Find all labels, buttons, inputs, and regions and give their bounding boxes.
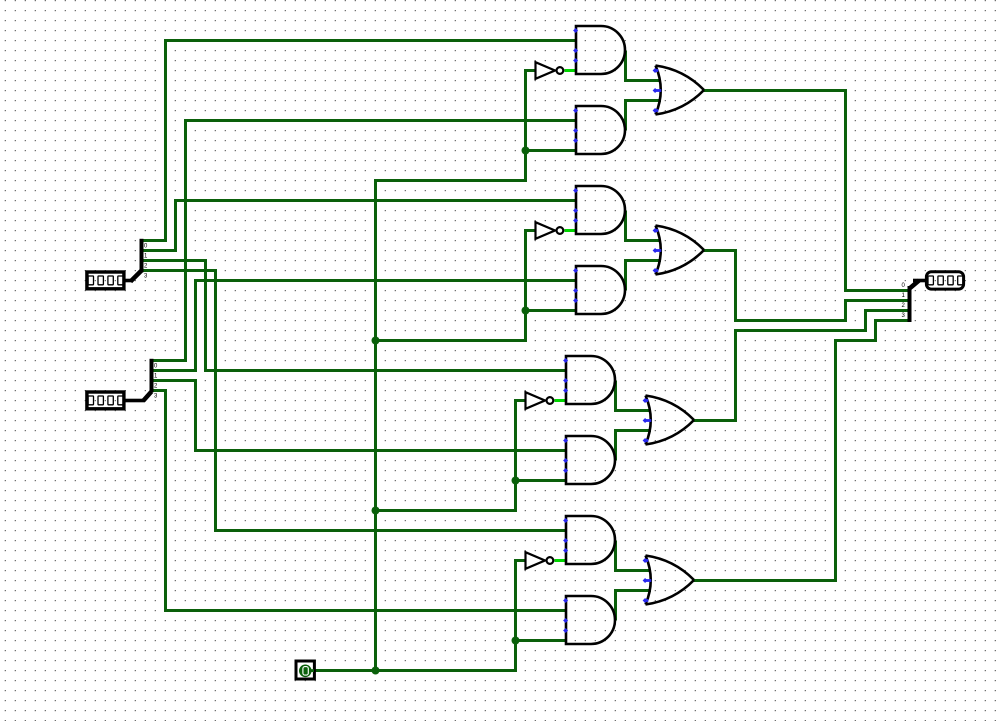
wire B1 (input B bit1 to AND U4 input) <box>151 281 577 371</box>
wire OUT0 from OR U9 <box>704 91 908 291</box>
wire SEL riser <box>376 181 528 673</box>
AND gate U4 <box>573 266 625 314</box>
wire N4 output (logic 1) <box>555 559 567 562</box>
wire U8 out to OR U12 <box>616 591 652 621</box>
wire N1 output (logic 1) <box>565 69 577 72</box>
wire SEL group2 vertical to NOT N2 <box>375 231 536 341</box>
OR gate U10 <box>653 226 704 275</box>
wire A1 (input A bit1 to AND U3 input) <box>141 201 577 251</box>
splitter S1 pin labels 0-3 <box>144 244 148 280</box>
wire U1 out to OR U9 <box>626 51 662 81</box>
splitter S3 (output) spine <box>908 279 927 322</box>
AND gate U7 <box>563 516 615 564</box>
wire OUT2 from OR U11 <box>694 311 908 421</box>
wire N3 output (logic 1) <box>555 399 567 402</box>
wire N2 output (logic 1) <box>565 229 577 232</box>
splitter S1 (input A) spine <box>125 239 144 283</box>
output pin (4-bit, value 0000) <box>926 272 963 289</box>
wire U3 out to OR U10 <box>626 211 662 241</box>
wire SEL horizontal from constant <box>313 669 517 672</box>
NOT gate N2 <box>536 222 564 239</box>
wire SEL to AND U8 <box>516 639 568 642</box>
constant 0 (select source) <box>296 661 314 679</box>
wire B0 (input B bit0 to AND U2 input) <box>151 121 577 361</box>
input pin B (4-bit, value 0000) <box>87 392 124 409</box>
NOT gate N4 <box>526 552 554 569</box>
junction SEL riser y510 <box>372 507 380 515</box>
wire B2 (input B bit2 to AND U6 input) <box>151 381 567 451</box>
wire SEL to AND U2 <box>526 149 578 152</box>
wire U7 out to OR U12 <box>616 541 652 571</box>
AND gate U6 <box>563 436 615 484</box>
junction SEL at U4 input <box>522 307 530 315</box>
wire U5 out to OR U11 <box>616 381 652 411</box>
wire B3 (input B bit3 to AND U8 input) <box>151 391 567 611</box>
junction SEL at U2 input <box>522 147 530 155</box>
AND gate U8 <box>563 596 615 644</box>
wire SEL to AND U6 <box>516 479 568 482</box>
junction SEL at U8 input <box>512 637 520 645</box>
wire A3 (input A bit3 to AND U7 input) <box>141 271 567 531</box>
wire U4 out to OR U10 <box>626 261 662 291</box>
AND gate U5 <box>563 356 615 404</box>
junction SEL at U6 input <box>512 477 520 485</box>
junction SEL riser at constant <box>372 667 380 675</box>
junction SEL riser y340 <box>372 337 380 345</box>
AND gate U1 <box>573 26 625 74</box>
wire OUT3 from OR U12 <box>694 321 908 581</box>
input pin A (4-bit, value 0000) <box>87 272 124 289</box>
wire SEL group1 vertical to NOT N1 <box>526 71 537 183</box>
wire A2 (input A bit2 to AND U5 input) <box>141 261 567 371</box>
NOT gate N1 <box>536 62 564 79</box>
AND gate U2 <box>573 106 625 154</box>
wire SEL group4 vertical to NOT N4 <box>516 561 527 673</box>
splitter S2 (input B) spine <box>125 359 154 403</box>
wire U6 out to OR U11 <box>616 431 652 461</box>
wire OUT1 from OR U10 <box>704 251 908 321</box>
AND gate U3 <box>573 186 625 234</box>
splitter S2 pin labels 0-3 <box>154 364 158 400</box>
wire SEL to AND U4 <box>526 309 578 312</box>
OR gate U9 <box>653 66 704 115</box>
splitter S3 pin labels 0-3 <box>902 283 906 319</box>
wire SEL group3 vertical to NOT N3 <box>375 401 526 511</box>
wire U2 out to OR U9 <box>626 101 662 131</box>
OR gate U11 <box>643 396 694 445</box>
NOT gate N3 <box>526 392 554 409</box>
OR gate U12 <box>643 556 694 605</box>
wire A0 (input A bit0 to AND U1 input) <box>141 41 577 241</box>
